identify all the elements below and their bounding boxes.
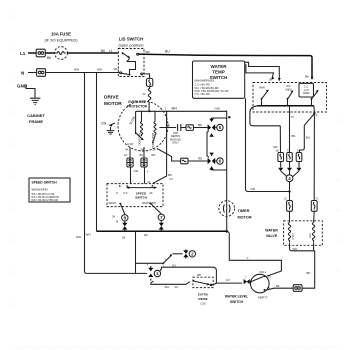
- svg-text:MOTOR: MOTOR: [238, 216, 252, 220]
- svg-text:GY: GY: [124, 153, 128, 157]
- svg-text:1B: 1B: [269, 79, 272, 82]
- svg-text:BU: BU: [140, 153, 144, 157]
- svg-text:Y: Y: [147, 170, 149, 174]
- svg-text:L1: L1: [20, 51, 26, 56]
- svg-text:EMPTY: EMPTY: [258, 295, 268, 299]
- svg-text:BU: BU: [306, 136, 310, 140]
- svg-text:(WASH/RINSE): (WASH/RINSE): [195, 79, 215, 83]
- svg-text:BU: BU: [165, 50, 170, 54]
- svg-text:CCW: CCW: [127, 142, 134, 146]
- svg-text:WH: WH: [86, 233, 91, 237]
- svg-text:BK: BK: [276, 284, 280, 288]
- svg-text:Y/W: Y/W: [214, 106, 220, 110]
- svg-text:P-6: P-6: [124, 192, 129, 195]
- svg-text:WASH/SPIN: WASH/SPIN: [142, 202, 156, 205]
- svg-text:GY: GY: [170, 177, 174, 181]
- svg-text:WASH/SPIN: WASH/SPIN: [32, 188, 48, 192]
- svg-text:M: M: [116, 220, 118, 224]
- svg-text:SU: SU: [175, 285, 179, 289]
- svg-text:SPEED SWITCH: SPEED SWITCH: [32, 181, 58, 185]
- svg-text:OVERLOAD: OVERLOAD: [128, 100, 147, 104]
- svg-text:VALVE: VALVE: [266, 234, 278, 238]
- svg-text:1B: 1B: [276, 150, 279, 153]
- svg-text:3A: 3A: [112, 215, 115, 219]
- svg-text:CABINET: CABINET: [27, 113, 45, 118]
- svg-text:BK: BK: [305, 75, 309, 79]
- svg-text:WW: WW: [259, 86, 265, 90]
- svg-text:W&W: W&W: [285, 88, 292, 91]
- svg-text:SWITCH: SWITCH: [230, 300, 244, 304]
- svg-text:L1: L1: [109, 49, 113, 53]
- svg-text:CW: CW: [101, 122, 106, 126]
- svg-text:WH: WH: [76, 235, 81, 239]
- svg-text:BK: BK: [292, 134, 296, 138]
- svg-text:BK: BK: [198, 123, 202, 127]
- svg-text:5A: 5A: [153, 148, 156, 152]
- svg-text:FRAME: FRAME: [29, 119, 44, 124]
- svg-text:COLD: COLD: [291, 233, 294, 240]
- svg-text:WASH: WASH: [109, 202, 117, 205]
- svg-text:ONLY: ONLY: [172, 141, 179, 145]
- svg-text:10A FUSE: 10A FUSE: [51, 32, 71, 37]
- svg-text:WATER LEVEL: WATER LEVEL: [225, 295, 248, 299]
- svg-text:TIMER: TIMER: [238, 209, 250, 213]
- svg-text:BK: BK: [166, 123, 170, 127]
- svg-text:BK: BK: [307, 271, 311, 275]
- svg-text:WATER: WATER: [211, 64, 228, 69]
- svg-text:RD: RD: [152, 153, 156, 157]
- svg-text:1A: 1A: [297, 150, 300, 153]
- svg-text:WH: WH: [74, 68, 79, 72]
- svg-text:V2: V2: [143, 92, 147, 96]
- svg-text:WH: WH: [293, 247, 298, 251]
- svg-text:WH: WH: [97, 68, 102, 72]
- svg-text:PROTECTOR: PROTECTOR: [127, 105, 148, 109]
- svg-text:TEMP: TEMP: [212, 70, 225, 75]
- svg-text:FULL: FULL: [260, 270, 267, 274]
- svg-text:(open position): (open position): [118, 44, 144, 48]
- svg-text:(IF SO EQUIPPED): (IF SO EQUIPPED): [44, 39, 78, 43]
- svg-text:WB: WB: [197, 274, 201, 277]
- svg-text:LID SWITCH: LID SWITCH: [119, 37, 143, 42]
- svg-text:R/R = BK-BU,GY/BK-OR: R/R = BK-BU,GY/BK-OR: [32, 199, 59, 202]
- svg-text:1B: 1B: [122, 236, 125, 240]
- svg-text:GY: GY: [226, 278, 230, 282]
- svg-text:SWITCH: SWITCH: [135, 196, 147, 200]
- svg-text:9A: 9A: [144, 233, 148, 237]
- svg-text:6A: 6A: [141, 148, 144, 152]
- svg-text:WH: WH: [165, 285, 169, 289]
- svg-text:MOTOR: MOTOR: [104, 101, 122, 107]
- svg-text:WATER: WATER: [265, 229, 278, 233]
- svg-text:HOT: HOT: [308, 233, 311, 239]
- svg-text:H,C = BU-RD: H,C = BU-RD: [195, 93, 210, 96]
- svg-text:WH: WH: [114, 67, 119, 71]
- svg-text:WH: WH: [172, 107, 178, 111]
- svg-text:DRIVE: DRIVE: [104, 95, 119, 101]
- svg-text:GY: GY: [172, 263, 176, 267]
- svg-text:7A: 7A: [147, 180, 151, 184]
- svg-text:3A: 3A: [125, 148, 128, 152]
- svg-text:RED WDG: RED WDG: [137, 133, 141, 146]
- svg-text:9A: 9A: [150, 192, 153, 195]
- svg-text:W&W: W&W: [303, 92, 310, 95]
- svg-text:Y: Y: [247, 256, 249, 260]
- svg-text:RINSE: RINSE: [198, 297, 207, 301]
- svg-text:(1/f): (1/f): [201, 301, 206, 305]
- svg-text:BK: BK: [168, 173, 172, 177]
